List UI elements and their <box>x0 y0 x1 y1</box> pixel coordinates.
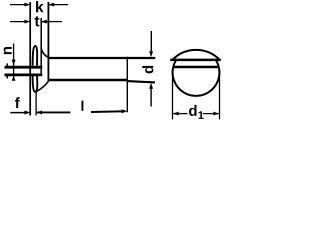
slot upper tick <box>6 63 8 66</box>
label d1 base <box>189 105 197 116</box>
arrow d upper pointing down <box>149 51 153 57</box>
label t <box>35 16 40 26</box>
arrow d1 left <box>173 112 179 116</box>
dimension k line left <box>10 4 29 6</box>
dimension t line left <box>10 21 29 23</box>
slot lower tick <box>6 76 8 79</box>
head lens lower arc <box>33 76 38 92</box>
slot lower line <box>5 74 43 77</box>
label f <box>15 97 20 108</box>
arrow d1 right <box>213 112 219 116</box>
shank bottom line end part <box>127 81 155 82</box>
dimension l line left (shared with f arrow) <box>37 111 71 113</box>
arrow n upper pointing down <box>12 60 16 66</box>
head lens upper arc <box>33 46 38 66</box>
label d (rotated) <box>142 66 153 74</box>
dimension d lower line <box>150 88 152 107</box>
arrow k left <box>24 3 30 7</box>
front view head circle lower part <box>173 60 220 96</box>
d1 dimension line left <box>173 113 187 115</box>
dimension d upper line <box>150 31 152 52</box>
d1 extension line left <box>172 70 174 119</box>
arrow l/f left <box>36 110 42 114</box>
arrow l right <box>121 109 127 113</box>
cone edge lower <box>36 81 49 92</box>
cone edge upper <box>41 48 48 58</box>
d1 extension line right <box>219 70 221 119</box>
front view slot upper line <box>170 59 221 62</box>
dimension n line upper <box>13 44 15 81</box>
label l <box>81 101 83 111</box>
break line x=127 <box>126 57 128 112</box>
slot upper line <box>5 66 43 69</box>
arrow d lower pointing up <box>149 83 153 89</box>
shank bottom line <box>48 79 128 82</box>
dimension t line right <box>42 21 62 23</box>
arrow t left <box>24 20 30 24</box>
d1 dimension line right <box>203 113 219 115</box>
arrow k right <box>48 3 54 7</box>
extension line head-shank junction x=48.3 <box>47 2 49 82</box>
arrow n lower pointing up <box>12 76 16 81</box>
shank top line <box>48 57 155 59</box>
dimension f line left <box>10 112 28 114</box>
dimension k line right <box>48 4 68 6</box>
label k <box>36 1 44 12</box>
front view slot lower line <box>174 66 218 69</box>
arrow f left <box>24 111 30 115</box>
label n (rotated) <box>4 47 12 54</box>
extension line slot bottom x=41 <box>40 18 42 76</box>
label d1 subscript <box>198 111 203 119</box>
dimension l line right <box>91 110 125 113</box>
arrow t right <box>41 20 47 24</box>
front view dome arc <box>172 50 219 60</box>
extension line f right x=36.1 <box>35 92 37 116</box>
extension line apex plane x=30 <box>29 2 31 116</box>
